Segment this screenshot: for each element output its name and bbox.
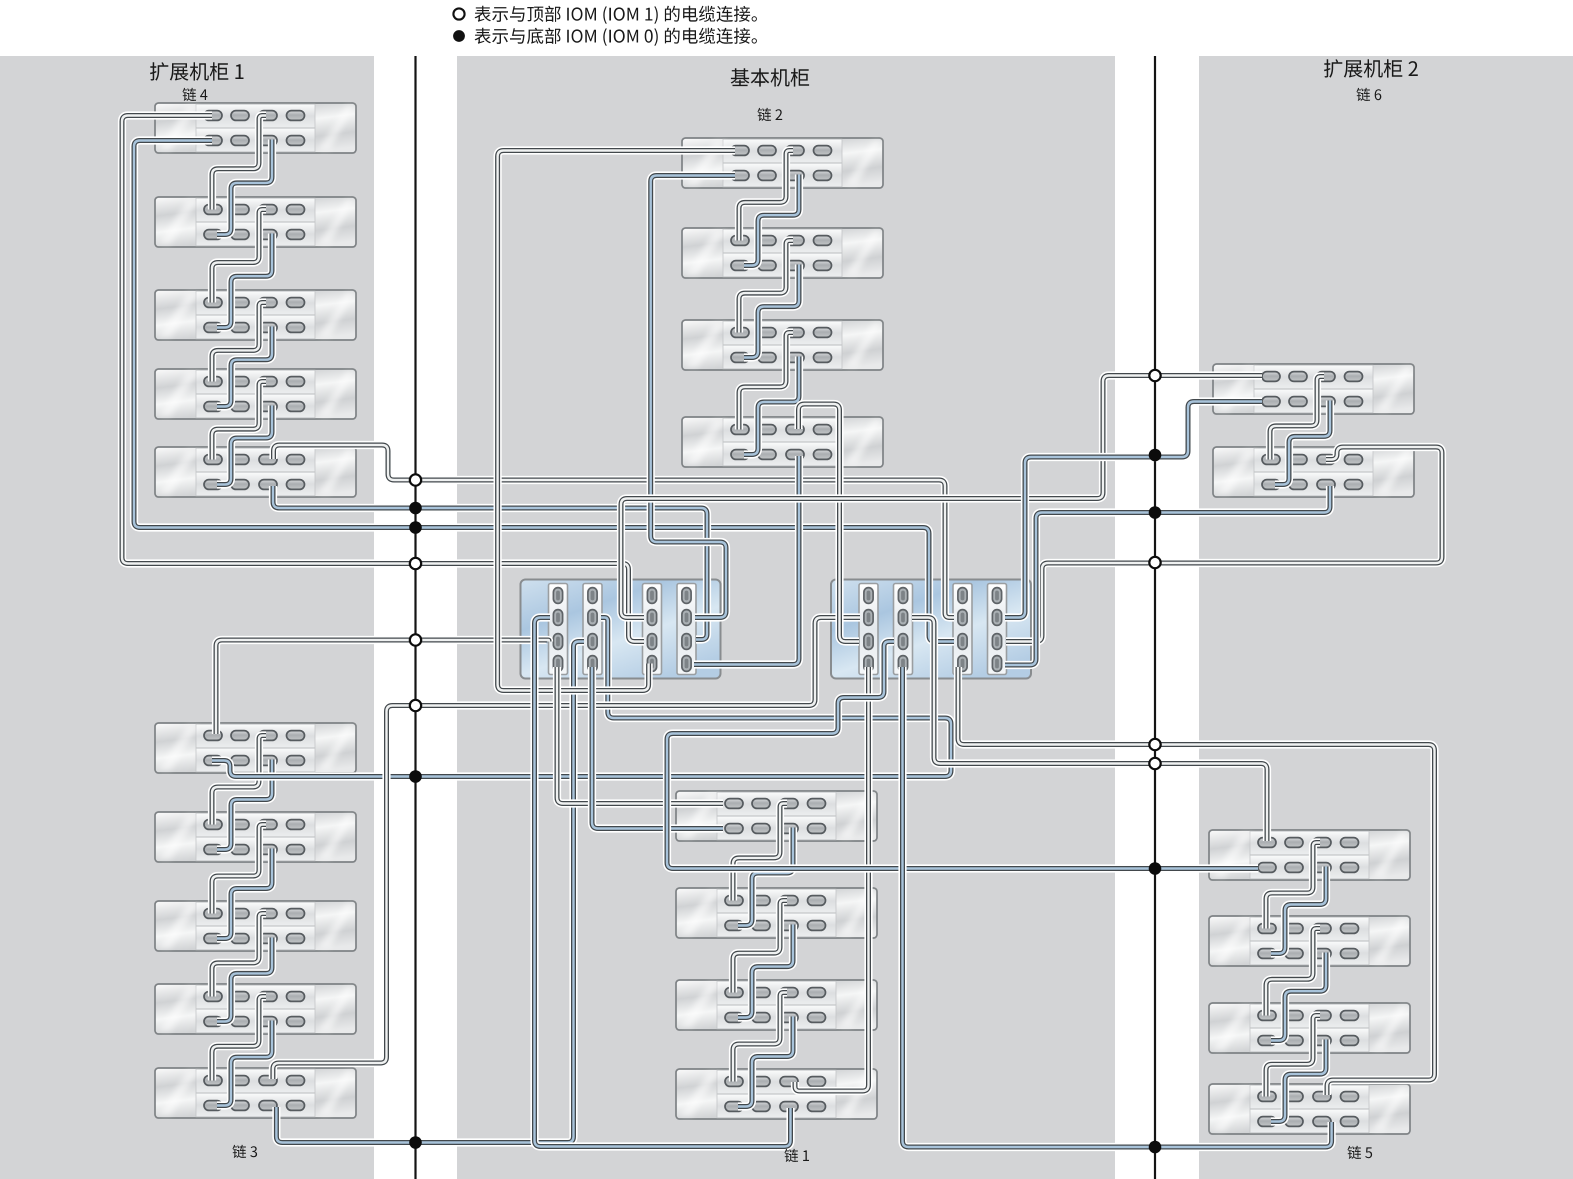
junction line2 y868.5 [1149,862,1162,875]
label subtitle chain4 [183,88,208,101]
junction line1 y527.5 [409,521,422,534]
junction line2 y763.5 [1149,758,1160,769]
disk shelf chain4 shelf 4 [155,369,356,419]
wire chain5 IOM0 link 2 [1271,953,1326,1041]
controller head 1 [521,580,721,679]
wire trunk chain2-top to head1 slot3 [498,151,735,691]
junction line1 y705.5 [410,700,421,711]
wire chain1 IOM0 link 1 [738,828,793,926]
wire chain3 IOM1 link 4 [212,997,266,1081]
junction line2 y512.5 [1149,506,1162,519]
disk shelf chain4 shelf 5 [155,447,356,497]
disk shelf chain5 shelf 1 [1209,830,1410,880]
legend symbol IOM0 [453,30,465,42]
wire chain3 IOM0 link 2 [217,849,272,939]
wire chain5 IOM1 link 2 [1266,929,1320,1016]
wire trunk chain4-bottom to head2 slot3 [134,141,954,642]
disk shelf chain4 shelf 1 [155,103,356,153]
label subtitle chain6 [1357,88,1382,101]
wire chain2 IOM0 link 2 [744,265,799,358]
junction line2 y375.5 [1149,370,1160,381]
disk shelf chain1 shelf 2 [676,888,877,938]
wire trunk chain6-top2 to head2 slot4 [1006,447,1442,642]
disk shelf chain5 shelf 2 [1209,916,1410,966]
wire trunk chain4-bottom2 to head1 slot4 [273,486,707,640]
wire chain4 IOM1 link 1 [212,116,266,210]
label title cabinet1 [150,62,244,80]
disk shelf chain2 shelf 3 [682,320,883,370]
label title cabinet2 [1324,59,1418,77]
wire chain2 IOM1 link 3 [739,333,793,430]
disk shelf chain1 shelf 1 [676,791,877,841]
disk shelf chain3 shelf 2 [155,812,356,862]
wire chain5 IOM0 link 3 [1271,1040,1326,1122]
wire chain5 IOM1 link 3 [1266,1016,1320,1097]
disk shelf chain1 shelf 3 [676,980,877,1030]
wire trunk chain5-bottom to head2 slot2 [667,642,1258,869]
disk shelf chain6 shelf 1 [1213,364,1414,414]
wire chain3 IOM1 link 2 [212,825,266,914]
disk shelf chain2 shelf 4 [682,417,883,467]
disk shelf chain1 shelf 4 [676,1069,877,1119]
label subtitle chain5 [1348,1146,1373,1159]
wire trunk chain2-bottom to head1 slot4 [651,176,735,618]
wire chain4 IOM1 link 2 [212,210,266,303]
cabinet column: expansion cabinet 1 [0,56,374,1179]
wire chain3 IOM0 link 4 [217,1021,272,1106]
wire trunk chain4-top to head1 slot3 [122,116,644,642]
disk shelf chain3 shelf 5 [155,1068,356,1118]
disk shelf chain4 shelf 2 [155,197,356,247]
wire trunk chain3-bottom2 to head1 slot2 [276,642,584,1143]
wire trunk chain1-top to head1 slot1 [557,667,723,804]
legend symbol IOM1 [453,8,464,19]
disk shelf chain2 shelf 2 [682,228,883,278]
wire chain2 IOM0 link 3 [744,357,799,455]
disk shelf chain4 shelf 3 [155,290,356,340]
label title base cabinet [731,68,809,86]
disk shelf chain3 shelf 1 [155,723,356,773]
wire chain4 IOM1 link 3 [212,303,266,382]
disk shelf chain2 shelf 1 [682,138,883,188]
wire trunk chain3-top to head1 slot1 [216,640,549,734]
label subtitle chain3 [233,1145,258,1158]
junction line2 y562.5 [1149,557,1160,568]
junction line1 y776.5 [409,770,422,783]
wire chain2 IOM1 link 1 [739,151,793,241]
junction line1 y563.5 [410,558,421,569]
wire chain3 IOM0 link 1 [217,760,272,850]
wire chain2 IOM1 link 2 [739,241,793,333]
wire trunk chain2-bottom2 to head1 slot4 [694,456,799,665]
wire chain5 IOM0 link 1 [1271,867,1326,954]
wire trunk chain1-top2 to head2 slot1 [795,667,869,1091]
wire chain1 IOM1 link 2 [733,901,787,993]
cabinet column: base cabinet [457,56,1115,1179]
disk shelf chain5 shelf 4 [1209,1084,1410,1134]
divider line right [1154,56,1156,1179]
wire trunk chain5-top2 to head2 slot3 [958,667,1435,1095]
disk shelf chain3 shelf 4 [155,984,356,1034]
wire chain6 IOM1 link 1 [1270,377,1324,460]
wire chain4 IOM0 link 2 [217,234,272,328]
junction line2 y1147 [1149,1141,1162,1154]
junction line1 y508 [409,502,422,515]
disk shelf chain5 shelf 3 [1209,1003,1410,1053]
wire chain3 IOM1 link 3 [212,914,266,997]
wire trunk chain2-top2 to head2 slot1 [799,404,860,642]
label legend text IOM1 [475,6,757,24]
wire trunk chain3-bottom to head1 slot2 [212,618,951,777]
wire chain4 IOM0 link 3 [217,327,272,407]
wire trunk chain4-top2 to head2 slot3 [274,445,955,618]
wire chain3 IOM1 link 1 [212,736,266,825]
controller head 2 [831,580,1031,679]
junction line2 y744.5 [1149,739,1160,750]
wire chain3 IOM0 link 3 [217,938,272,1022]
wire chain4 IOM0 link 1 [217,140,272,235]
junction line1 y640 [410,634,421,645]
wire chain2 IOM0 link 1 [744,175,799,266]
wire chain4 IOM1 link 4 [212,382,266,460]
wire trunk chain6-bottom to head2 slot4 [1005,402,1262,618]
label legend text IOM0 [475,28,757,46]
wire chain1 IOM1 link 1 [733,804,787,901]
wire chain1 IOM0 link 3 [738,1017,793,1107]
junction line2 y455 [1149,449,1162,462]
junction line1 y480 [410,474,421,485]
wire trunk chain5-bottom2 to head2 slot2 [903,667,1332,1147]
wire chain5 IOM1 link 1 [1266,843,1320,929]
wire chain6 IOM0 link 1 [1275,401,1330,485]
wire trunk chain1-bottom2 to head1 slot1 [535,618,791,1147]
wire trunk chain6-top to head1 slot3 [621,376,1262,618]
wire trunk chain6-bottom2 to head2 slot4 [1005,486,1330,665]
divider line left [414,56,416,1179]
disk shelf chain3 shelf 3 [155,901,356,951]
wire trunk chain3-top2 to head2 slot1 [273,618,860,1080]
cabinet column: expansion cabinet 2 [1199,56,1573,1179]
disk shelf chain6 shelf 2 [1213,447,1414,497]
junction line1 y1142.5 [409,1136,422,1149]
wire trunk chain1-bottom to head1 slot2 [592,667,723,829]
wire chain1 IOM0 link 2 [738,925,793,1018]
wire chain1 IOM1 link 3 [733,993,787,1082]
label subtitle chain2 [758,108,783,121]
label subtitle chain1 [785,1149,810,1162]
wire chain4 IOM0 link 4 [217,406,272,485]
wire trunk chain5-top to head2 slot2 [912,618,1267,842]
